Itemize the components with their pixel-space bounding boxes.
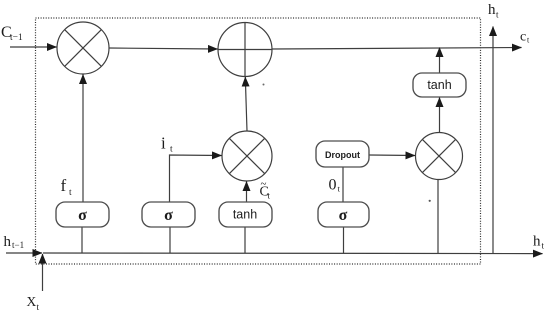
svg-text:Dropout: Dropout <box>325 150 360 160</box>
svg-text:~: ~ <box>261 178 267 190</box>
svg-text:t: t <box>338 184 341 194</box>
svg-text:X: X <box>27 294 37 309</box>
svg-text:σ: σ <box>339 207 348 224</box>
svg-text:h: h <box>488 2 496 18</box>
svg-text:t−1: t−1 <box>12 240 24 250</box>
svg-text:t: t <box>496 10 499 20</box>
svg-text:h: h <box>4 234 12 250</box>
svg-text:tanh: tanh <box>233 208 257 222</box>
svg-text:f: f <box>61 176 67 195</box>
svg-text:0: 0 <box>329 177 337 194</box>
svg-text:h: h <box>533 234 541 250</box>
svg-text:t−1: t−1 <box>10 33 23 43</box>
svg-text:t: t <box>542 241 545 251</box>
svg-text:tanh: tanh <box>427 78 451 92</box>
svg-text:c: c <box>520 30 526 45</box>
svg-text:t: t <box>37 303 40 312</box>
svg-text:t: t <box>170 145 173 155</box>
svg-text:σ: σ <box>164 207 173 224</box>
svg-text:t: t <box>69 188 72 198</box>
svg-text:t: t <box>268 191 271 201</box>
svg-text:i: i <box>161 134 166 153</box>
svg-text:σ: σ <box>78 207 87 224</box>
svg-text:t: t <box>527 36 530 45</box>
